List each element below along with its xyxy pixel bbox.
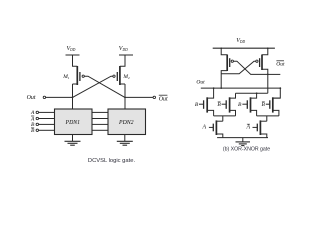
svg-text:PDN1: PDN1: [65, 120, 81, 126]
wire node Out to left terminal: [46, 96, 73, 98]
bus wire PDN1 to PDN2 (line 2): [92, 118, 108, 120]
svg-text:PDN2: PDN2: [118, 120, 134, 126]
junction Out-bar lower rail / N3 drain: [256, 92, 258, 94]
wire M2 drain to PDN2 (node Out-bar vertical): [124, 84, 126, 109]
label Out: [27, 95, 36, 101]
junction P2 drain / Out-bar stub: [267, 74, 269, 76]
caption (a): DCVSL logic gate.: [88, 158, 136, 164]
wire M2 drain stub: [120, 83, 125, 85]
svg-text:B: B: [217, 102, 221, 108]
terminal circle Out: [43, 96, 45, 98]
junction rail / P1 source: [220, 47, 222, 49]
wire N1/N2 sources to NA drain: [214, 116, 236, 121]
wire P2 drain stub and down to Out-bar lower rail: [262, 69, 268, 93]
label B (N1 gate): [195, 102, 199, 108]
wire VDD to M1 source: [73, 55, 78, 66]
transistor N3 (NMOS, gate B): [242, 93, 256, 116]
node Out junction: [72, 97, 74, 99]
input terminal B: [31, 122, 54, 128]
svg-text:A: A: [30, 110, 35, 116]
transistor P2 (right PMOS, right circuit): [256, 55, 262, 71]
svg-text:VDD: VDD: [67, 46, 76, 52]
junction Out rail / N1 drain: [213, 87, 215, 89]
wire P2 gate to node Out (cross-couple): [221, 61, 256, 74]
wire M1 drain to PDN1 (node Out vertical): [72, 84, 74, 109]
label Out (right circuit): [196, 80, 205, 86]
svg-text:B: B: [31, 128, 35, 134]
wire P1 drain stub and down to node Out: [221, 71, 227, 89]
svg-text:B: B: [195, 102, 199, 108]
junction Out rail / P1 drain: [220, 87, 222, 89]
label Out-bar: [159, 95, 168, 103]
transistor M2 (PMOS): [113, 66, 130, 85]
svg-text:VDD: VDD: [236, 38, 245, 44]
wire N3/N4 sources to NA-bar drain: [257, 116, 279, 121]
svg-text:B: B: [238, 102, 242, 108]
wire M1 drain stub: [73, 83, 78, 85]
label A-bar (NA-bar gate): [245, 124, 250, 130]
junction Out rail right end: [279, 87, 281, 89]
transistor NA (NMOS, gate A): [209, 120, 223, 137]
svg-text:Out: Out: [196, 80, 205, 86]
VDD rail: [213, 47, 275, 49]
svg-text:Out: Out: [27, 95, 36, 101]
svg-text:B: B: [262, 102, 266, 108]
svg-text:A: A: [201, 124, 206, 130]
svg-text:DCVSL logic gate.: DCVSL logic gate.: [88, 158, 136, 164]
wire P1 gate to node Out-bar (cross-couple): [233, 61, 267, 74]
wire Out-bar lower rail (N2/N3 drains): [236, 92, 268, 94]
svg-text:Out: Out: [276, 62, 285, 68]
bus wire PDN1 to PDN2 (line 3): [92, 123, 108, 125]
input terminal B-bar: [31, 128, 55, 134]
svg-text:M1: M1: [62, 74, 70, 80]
ground rail (right circuit): [217, 137, 268, 139]
wire Out rail down to N4 drain: [273, 88, 281, 98]
wire VDD rail to P1 source: [221, 48, 227, 55]
input terminal A: [30, 110, 54, 116]
svg-text:M2: M2: [122, 74, 130, 80]
wire VDD to M2 source: [120, 55, 125, 66]
terminal circle Out-bar: [153, 96, 155, 98]
block PDN2: [108, 109, 146, 135]
label Out-bar (right circuit): [276, 61, 285, 68]
bus wire PDN1 to PDN2 (line 1): [92, 111, 108, 113]
label B-bar (N4 gate): [262, 102, 266, 108]
label B-bar (N2 gate): [217, 102, 221, 108]
wire VDD rail to P2 source: [262, 48, 268, 55]
svg-text:A: A: [245, 124, 250, 130]
VDD supply symbol (left, above M1): [66, 46, 80, 55]
svg-text:(b) XOR-XNOR gate: (b) XOR-XNOR gate: [223, 147, 270, 153]
ground symbol (right circuit): [236, 138, 251, 146]
ground below PDN2: [117, 135, 133, 146]
bus wire PDN1 to PDN2 (line 4): [92, 129, 108, 131]
VDD supply label (right circuit): [236, 38, 245, 44]
wire M2 gate to node Out (cross-couple): [73, 76, 113, 97]
label B (N3 gate): [238, 102, 242, 108]
svg-text:Out: Out: [159, 97, 168, 103]
wire node Out horizontal rail: [201, 87, 280, 89]
ground below PDN1: [65, 135, 81, 146]
label A (NA gate): [201, 124, 206, 130]
svg-text:VDD: VDD: [119, 46, 128, 52]
transistor N4 (NMOS, gate B-bar): [266, 97, 281, 116]
wire Out-bar stub to label: [268, 73, 281, 75]
node Out-bar junction: [124, 97, 126, 99]
transistor NA-bar (NMOS, gate A-bar): [253, 120, 267, 137]
caption (b): XOR-XNOR gate: [223, 147, 270, 153]
wire node Out-bar to right terminal: [125, 96, 153, 98]
input terminal A-bar: [30, 116, 54, 122]
transistor N2 (NMOS, gate B-bar): [222, 93, 236, 116]
transistor M1 (PMOS): [62, 66, 84, 85]
block PDN1: [55, 109, 93, 135]
transistor P1 (left PMOS, right circuit): [227, 55, 233, 72]
VDD supply symbol (left circuit, above M2): [119, 46, 133, 55]
junction rail / P2 source: [267, 47, 269, 49]
wire M1 gate to node Out-bar (cross-couple): [84, 76, 125, 97]
transistor N1 (NMOS, gate B): [199, 88, 214, 116]
